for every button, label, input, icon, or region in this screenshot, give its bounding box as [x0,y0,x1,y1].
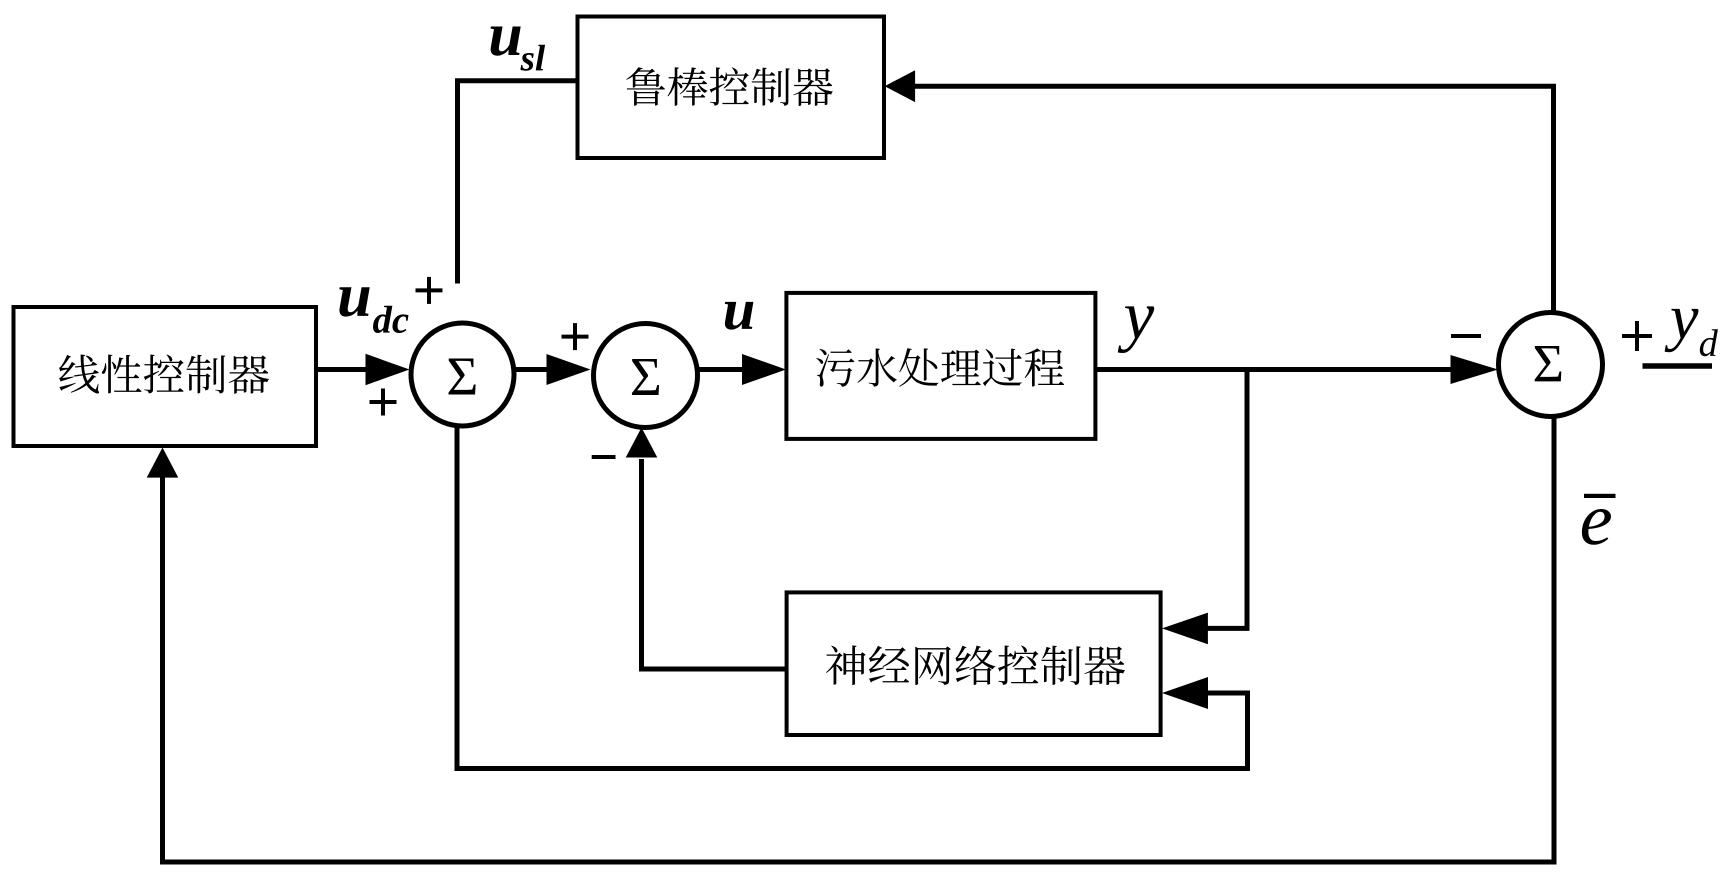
wire: S2 output u to process [696,367,744,372]
minus sign at S3 left input [1451,334,1481,338]
signal label y_d [1665,309,1699,352]
arrowhead into neural network lower input [1162,677,1208,709]
signal label e-bar (e) [1582,509,1611,545]
block: linear controller box 线性控制器 [14,307,317,446]
signal label y [1118,306,1154,353]
arrowhead into linear controller bottom [147,448,179,478]
summing junction S2 circle [594,324,698,428]
plus sign at S2 left input [562,335,589,339]
wire: S1 output branch down and around to neural network lower input [457,424,1248,769]
sigma of summing junction S3 [1535,346,1562,381]
arrowhead into robust controller [885,70,916,102]
block: robust controller box 鲁棒控制器 [578,17,885,159]
overbar of e [1584,494,1616,498]
wire: process output y to S3 [1095,367,1452,372]
block: neural network controller box 神经网络控制器 [787,592,1161,735]
wire: S1 to S2 [513,367,549,372]
block label: linear controller 线性控制器 [59,355,269,394]
wire: y branch down to neural network upper input [1206,370,1247,629]
block label: robust controller 鲁棒控制器 [626,67,833,106]
wire: e-bar feedback from S3 bottom to linear controller [163,417,1555,862]
plus sign at S1 left input (u_dc) [370,400,397,404]
block: wastewater process box 污水处理过程 [786,293,1095,439]
sigma of summing junction S1 [449,358,476,394]
block label: wastewater treatment process 污水处理过程 [816,348,1064,386]
signal label u_sl [491,26,521,55]
wire: linear controller output u_dc to S1 [316,367,368,372]
arrowhead into neural network upper input [1162,613,1208,645]
wire: e-bar feedback from S3 top to robust controller [915,86,1554,315]
arrowhead into S2 bottom [626,428,658,458]
block label: neural network controller 神经网络控制器 [826,645,1125,685]
wire: neural network output to S2 bottom [642,459,787,669]
summing junction S1 circle [411,323,514,426]
arrowhead into S2 [547,354,591,385]
arrowhead into process box [742,354,786,385]
summing junction S3 circle [1499,313,1603,417]
arrowhead into S1 [366,354,410,385]
signal label u [725,302,754,330]
plus sign at S1 top input (u_sl) [416,288,443,292]
sigma of summing junction S2 [632,359,659,395]
wire: u_sl from robust controller down toward S1 [458,81,578,284]
signal label u_dc [339,287,369,316]
plus sign at S3 right input (y_d) [1622,334,1652,338]
wire: y_d input stub under y_d label [1643,363,1713,369]
minus sign at S2 bottom input [592,455,616,459]
arrowhead into S3 [1451,355,1499,384]
